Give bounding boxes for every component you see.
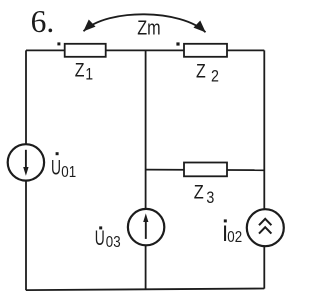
- current source I02: [247, 209, 284, 246]
- wire: Z3 branch horizontal: [146, 169, 265, 172]
- label U03 with dot: [99, 226, 102, 229]
- svg-text:01: 01: [61, 164, 76, 181]
- svg-text:6.: 6.: [31, 4, 55, 39]
- U03 arrow (up): [145, 221, 147, 239]
- impedance Z3: [184, 163, 227, 177]
- wire: top horizontal: [26, 49, 264, 51]
- coupling dot at Z2: [176, 42, 179, 45]
- wire: bottom horizontal: [26, 289, 264, 291]
- svg-text:03: 03: [106, 234, 121, 251]
- label U01 with dot: [56, 152, 59, 155]
- I02 chevrons (up): [259, 219, 271, 225]
- U01 arrow (down): [25, 150, 27, 170]
- wire: middle vertical: [145, 50, 147, 289]
- impedance Z2: [184, 44, 227, 57]
- mutual coupling arrow Zm: [84, 14, 206, 32]
- label I02 with dot: [224, 219, 227, 222]
- voltage source U01: [8, 144, 44, 180]
- wire: left vertical: [25, 50, 27, 290]
- wire: right vertical: [263, 50, 265, 288]
- svg-text:U: U: [51, 156, 61, 180]
- coupling dot at Z1: [57, 42, 60, 45]
- svg-text:02: 02: [227, 229, 242, 246]
- voltage source U03: [128, 209, 164, 245]
- impedance Z1: [65, 44, 106, 57]
- svg-text:U: U: [95, 226, 105, 250]
- svg-text:Zm: Zm: [137, 17, 160, 39]
